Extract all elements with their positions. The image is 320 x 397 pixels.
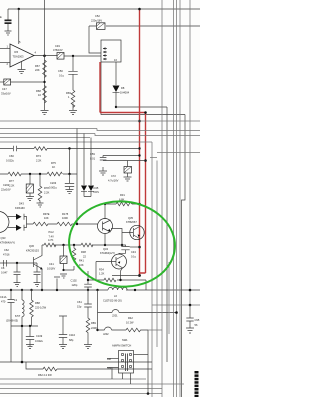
node y155.5: [138, 154, 140, 156]
wire C52 rail: [89, 25, 200, 27]
resistor R42: [126, 316, 148, 332]
svg-text:Q36: Q36: [29, 244, 34, 248]
svg-text:IC5: IC5: [14, 50, 19, 54]
wire corner x167 down: [166, 107, 168, 362]
wire bus y379: [0, 378, 146, 380]
svg-text:R175: R175: [62, 212, 69, 216]
wire Q34 base from left: [96, 262, 116, 281]
ground under C109: [26, 345, 34, 349]
capacitor C60: [6, 146, 17, 163]
ground under R69: [69, 108, 77, 115]
node top rail junction: [18, 8, 20, 10]
wire rail y362: [0, 361, 152, 363]
jumper J202: [98, 327, 127, 336]
diode D8 1N4004: [113, 62, 130, 107]
wire x77 drop: [76, 129, 78, 225]
svg-text:10 2W: 10 2W: [126, 321, 134, 325]
svg-text:8.5T: 8.5T: [15, 314, 21, 318]
node y290 x190: [189, 289, 192, 292]
wire signal y148.5: [0, 148, 140, 150]
wire corner x152 down: [151, 142, 153, 397]
wire AM in: [107, 358, 119, 360]
wire vertical x44.5: [44, 0, 46, 108]
wire red-path highlight B vertical left: [99, 62, 101, 113]
node y393.5 x148: [147, 392, 150, 395]
resistor R77: [8, 172, 21, 187]
ground under C9: [34, 283, 41, 287]
wire C47 to node: [11, 81, 45, 83]
node y326 x30: [29, 325, 31, 327]
svg-text:AM: AM: [107, 357, 111, 361]
transistor Q35 KTB2067: [126, 216, 144, 240]
wire bus y393.5: [0, 393, 162, 395]
svg-text:C203: C203: [50, 181, 57, 185]
node y326 x22: [21, 325, 23, 327]
ground under C95: [186, 328, 194, 333]
svg-text:R88: R88: [35, 301, 40, 305]
svg-text:AM/FM SWITCH: AM/FM SWITCH: [112, 344, 131, 348]
resistor R41: [72, 245, 84, 267]
node red A y204: [138, 203, 141, 206]
ground under C46: [5, 31, 12, 35]
switch SW1 AM/FM: [112, 338, 134, 373]
wire bus v x190: [189, 0, 191, 305]
svg-text:J202: J202: [103, 332, 109, 336]
node y290 x57: [56, 289, 58, 291]
resistor R88: [30, 289, 47, 326]
node y148.5 x69.5: [68, 147, 70, 149]
node y290 x135: [134, 289, 136, 291]
svg-text:D45: D45: [94, 186, 99, 190]
wire corner x146 to L6 rail: [145, 280, 147, 290]
capacitor C46: [0, 9, 12, 31]
svg-text:C47: C47: [2, 87, 7, 91]
resistor R73: [34, 147, 47, 163]
resistor R97 10K: [33, 212, 57, 226]
svg-text:R97E: R97E: [43, 212, 50, 216]
ground under C203: [66, 190, 74, 194]
node y290 x93: [96, 289, 98, 291]
resistor R89 220K: [86, 307, 97, 345]
svg-text:R73: R73: [36, 154, 41, 158]
connector pads column: [195, 371, 199, 397]
resistor R175 100K: [57, 212, 98, 226]
svg-text:476/16V: 476/16V: [53, 48, 63, 52]
resistor R78: [38, 174, 49, 203]
svg-text:10K: 10K: [79, 263, 84, 267]
svg-text:0.1u: 0.1u: [59, 74, 65, 78]
svg-text:C41: C41: [49, 262, 54, 266]
wire bus y128.5: [0, 129, 200, 131]
svg-text:KTA964(A/Y): KTA964(A/Y): [100, 251, 115, 255]
node y240 x105: [104, 244, 106, 246]
wire y153 right: [157, 152, 200, 154]
svg-text:R89: R89: [91, 321, 96, 325]
node red A y247: [138, 246, 141, 249]
svg-text:15p: 15p: [77, 305, 82, 309]
wire under red bus: [101, 62, 185, 115]
wire C72 stub: [127, 161, 129, 167]
capacitor C62: [3, 248, 10, 267]
diode D44a: [81, 186, 87, 192]
svg-text:470: 470: [1, 300, 6, 304]
svg-text:22u/16V: 22u/16V: [1, 188, 11, 192]
svg-text:J201: J201: [112, 314, 118, 318]
svg-text:22K: 22K: [35, 68, 40, 72]
svg-text:KTB2067: KTB2067: [126, 220, 137, 224]
ground under C72: [124, 173, 132, 181]
svg-text:4.7u/16V: 4.7u/16V: [108, 179, 119, 183]
svg-text:2.2K: 2.2K: [44, 191, 50, 195]
svg-text:10/16V: 10/16V: [47, 267, 55, 271]
svg-text:C109: C109: [36, 334, 43, 338]
ground under C8: [14, 283, 21, 287]
svg-text:R67: R67: [35, 64, 40, 68]
svg-text:CLET(02-06-20): CLET(02-06-20): [103, 299, 122, 303]
node y310 x176.5: [175, 311, 178, 314]
wire x105 drop: [104, 204, 106, 219]
wire bus v x173.5: [173, 0, 175, 397]
svg-text:Q34: Q34: [103, 247, 108, 251]
ground mid x103: [99, 167, 107, 175]
svg-text:10K: 10K: [44, 216, 49, 220]
wire FM in: [107, 368, 119, 380]
node red B y164: [144, 159, 147, 162]
ground under R68: [41, 108, 49, 115]
capacitor C9: [34, 263, 41, 283]
svg-text:C102: C102: [71, 279, 78, 283]
svg-text:D43: D43: [19, 202, 24, 206]
svg-text:120p: 120p: [72, 283, 78, 287]
node y204 x105: [104, 203, 106, 205]
svg-text:KDS: KDS: [94, 190, 100, 194]
wire signal y262: [0, 262, 34, 264]
resistor R68: [36, 86, 46, 104]
wire SW1 right to R42 line: [134, 354, 149, 356]
capacitor C52: [91, 14, 105, 29]
capacitor C61: [77, 290, 92, 309]
wire D8 node to right corner: [116, 106, 167, 108]
wire SW1 pins down: [123, 373, 131, 384]
wire rail L6 y290: [0, 289, 200, 291]
transistor Q34 KTA964: [100, 247, 127, 269]
node y279 x120.5: [119, 279, 121, 281]
node y290 x42: [41, 289, 43, 291]
ground under C202: [26, 193, 34, 201]
ground under R89: [84, 345, 92, 349]
svg-text:C59: C59: [90, 152, 95, 156]
inductor L3: [6, 289, 24, 362]
capacitor C8: [1, 263, 21, 283]
svg-text:0.1u: 0.1u: [131, 255, 137, 259]
svg-text:KTA964(A/Y): KTA964(A/Y): [0, 241, 15, 245]
wire red-path highlight A vertical: [139, 9, 141, 276]
op-amp U IC5 TDA2003: [7, 40, 37, 67]
svg-text:C61: C61: [77, 300, 82, 304]
node red A bottom: [138, 274, 141, 277]
diode D43 pair: [8, 202, 33, 231]
ground under C110: [59, 345, 67, 349]
capacitor C41: [47, 245, 74, 271]
wire x91 drop: [90, 138, 92, 186]
capacitor C43: [119, 245, 137, 259]
wire bus v x162: [161, 0, 163, 397]
svg-text:R69: R69: [66, 91, 71, 95]
wire Q36b out to Q35 base: [111, 229, 133, 246]
svg-text:C110: C110: [69, 333, 76, 337]
highlight green ellipse: [65, 197, 178, 291]
wire y279: [88, 279, 146, 281]
transistor Q36b circle: [98, 219, 113, 234]
svg-text:R77: R77: [9, 179, 14, 183]
node y240 x122: [121, 244, 123, 246]
node y305 x190: [189, 304, 192, 307]
svg-text:0.001u: 0.001u: [49, 186, 57, 190]
svg-text:C60: C60: [9, 154, 14, 158]
capacitor C47: [0, 79, 11, 96]
wire top rail: [8, 8, 200, 10]
svg-text:C72: C72: [111, 174, 116, 178]
wire signal y174: [0, 173, 77, 175]
capacitor C109: [26, 326, 44, 346]
svg-text:KRC9012S: KRC9012S: [26, 249, 39, 253]
svg-text:47/16: 47/16: [3, 253, 10, 257]
node D8 bottom: [115, 106, 117, 108]
wire x84 drop: [83, 134, 85, 186]
svg-text:1K: 1K: [52, 165, 55, 169]
wire bus y142: [0, 141, 152, 143]
svg-text:R68: R68: [36, 89, 41, 93]
wire y305 right: [152, 304, 200, 306]
wire op-amp top pin: [18, 9, 20, 44]
capacitor C72: [108, 167, 132, 183]
wire x93 drop: [97, 290, 99, 313]
svg-text:FM: FM: [108, 366, 112, 370]
node red B top corner: [144, 111, 147, 114]
svg-text:D8: D8: [121, 86, 125, 90]
node y240 x75: [73, 244, 75, 246]
wire corner x185 down: [182, 115, 186, 397]
svg-text:SW1: SW1: [122, 338, 128, 342]
svg-text:C41A: C41A: [0, 295, 7, 299]
wire y275.5 to red: [112, 275, 140, 277]
svg-text:R62 2.2 3W: R62 2.2 3W: [38, 373, 52, 377]
svg-text:TDA2003: TDA2003: [13, 55, 25, 59]
node y240 x62: [62, 244, 64, 246]
svg-text:4.7K: 4.7K: [48, 238, 54, 242]
wire bus y133.5: [0, 134, 200, 136]
resistor R34 zigzag: [104, 278, 116, 282]
svg-text:Q33: Q33: [1, 236, 6, 240]
svg-text:7.4V: 7.4V: [49, 235, 55, 239]
transistor Q33 circle far-left: [0, 212, 15, 245]
svg-text:Pin2: Pin2: [49, 230, 55, 234]
node red A y148.5: [138, 147, 140, 149]
capacitor C41A column: [8, 290, 15, 362]
capacitor C110: [59, 316, 76, 345]
capacitor C102: [71, 271, 92, 291]
wire y155.5: [103, 155, 140, 157]
wire bus v x176.5: [176, 0, 178, 397]
svg-text:C50: C50: [58, 69, 63, 73]
wire R62 feed: [26, 362, 152, 369]
wire y330 corner: [148, 329, 162, 331]
transistor Q36 KTC3203: [26, 244, 43, 290]
wire R42 to SW1: [147, 330, 149, 394]
ground under C41: [60, 274, 67, 278]
wire signal y204: [105, 203, 140, 205]
svg-text:2.2K: 2.2K: [36, 159, 42, 163]
svg-text:68p: 68p: [69, 338, 74, 342]
capacitor C50: [58, 56, 78, 90]
node y330 x97.5: [96, 329, 98, 331]
wire bus v x180: [179, 0, 181, 397]
wire bus y121: [0, 120, 200, 122]
svg-text:C43: C43: [131, 250, 136, 254]
wire C49 right: [64, 55, 101, 57]
ground op-amp: [18, 62, 26, 74]
jumper J201: [98, 310, 177, 318]
svg-text:33u/16V: 33u/16V: [1, 92, 11, 96]
node y262 x20: [16, 262, 18, 264]
wire C43 top to red node: [130, 246, 140, 248]
node C50 top: [72, 55, 74, 57]
resistor R38: [81, 243, 93, 258]
svg-text:1.2K: 1.2K: [99, 272, 105, 276]
node y362 x11: [21, 361, 24, 364]
wire x69.5 drop: [69, 149, 71, 175]
wire Q34 emitter down: [121, 268, 123, 280]
resistor R67: [35, 60, 46, 78]
wire signal y240: [42, 244, 122, 246]
svg-text:R42: R42: [128, 316, 133, 320]
wire bus v x169: [168, 262, 170, 334]
svg-text:R34: R34: [99, 268, 104, 272]
svg-text:C8: C8: [1, 266, 5, 270]
capacitor C95 56: [186, 305, 200, 328]
transformer T1 box: [101, 40, 121, 62]
capacitor C59: [100, 156, 107, 161]
svg-text:R38: R38: [81, 250, 86, 254]
wire y160.5: [103, 160, 146, 162]
capacitor C202: [1, 174, 33, 193]
node op-amp output: [43, 55, 46, 58]
svg-text:C52: C52: [95, 14, 100, 18]
svg-text:220 1/2W: 220 1/2W: [35, 306, 47, 310]
svg-text:R31: R31: [120, 193, 125, 197]
svg-text:0.022u: 0.022u: [6, 159, 14, 163]
node red A top: [138, 8, 141, 11]
wire Q36b emitter drop: [104, 234, 106, 246]
wire y326: [11, 325, 38, 327]
svg-text:C202: C202: [3, 183, 10, 187]
node y174 x69.5: [68, 173, 70, 175]
node y174 x30: [29, 173, 31, 175]
svg-text:220u/16V: 220u/16V: [91, 19, 102, 23]
svg-text:E: E: [0, 15, 2, 19]
svg-text:0.022u: 0.022u: [35, 339, 43, 343]
resistor R31 6.8K: [116, 193, 132, 206]
capacitor C203: [49, 174, 74, 190]
svg-text:R41: R41: [79, 259, 84, 263]
wire bus y137.5: [0, 137, 90, 139]
wire C52 left drop: [89, 26, 101, 53]
svg-text:0.01: 0.01: [90, 157, 96, 161]
svg-text:1N4004: 1N4004: [120, 91, 130, 95]
resistor R69: [66, 90, 75, 108]
svg-text:(03-08-05): (03-08-05): [6, 319, 18, 323]
node y174 x40: [39, 173, 41, 175]
diode D44b: [88, 186, 94, 192]
wire op-amp output: [34, 55, 57, 57]
svg-text:C95: C95: [195, 318, 200, 322]
svg-text:C62: C62: [4, 248, 9, 252]
node x77 y224: [76, 223, 78, 225]
wire bus y388.5: [0, 388, 162, 390]
svg-text:2.2K: 2.2K: [9, 184, 15, 188]
wire op-amp input 1: [0, 48, 10, 50]
svg-text:KDS160: KDS160: [15, 206, 25, 210]
svg-text:C49: C49: [55, 44, 60, 48]
wire bus y384: [0, 383, 184, 385]
svg-text:0.047: 0.047: [1, 271, 8, 275]
resistor R75: [47, 161, 62, 176]
node red A y121: [138, 120, 141, 123]
wire op-amp input 2: [0, 62, 10, 64]
wire red-path highlight B horizontal: [100, 112, 146, 114]
ground under R78: [37, 203, 44, 207]
resistor R62: [38, 367, 57, 377]
inductor L6: [103, 287, 127, 302]
wire bus v x157: [156, 161, 158, 348]
wire red-path highlight B vertical right: [140, 113, 146, 274]
wire J201 feed: [97, 313, 99, 331]
capacitor C49: [53, 44, 64, 59]
node R67 bottom: [43, 81, 45, 83]
svg-text:R75: R75: [51, 161, 56, 165]
svg-text:Q35: Q35: [128, 216, 133, 220]
svg-text:220K: 220K: [91, 326, 97, 330]
svg-text:100K: 100K: [62, 216, 68, 220]
